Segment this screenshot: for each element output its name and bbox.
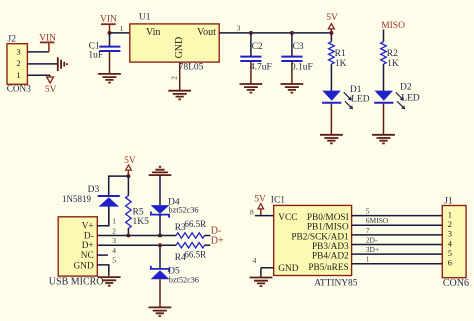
svg-text:1: 1 — [366, 255, 370, 264]
svg-text:1: 1 — [120, 24, 124, 33]
svg-text:V+: V+ — [82, 222, 94, 232]
wire USB NC stub — [97, 254, 108, 256]
connector J3 USB MICRO body — [58, 217, 97, 276]
svg-text:VCC: VCC — [278, 213, 297, 223]
wire IC1 pin3 row D+ — [352, 253, 443, 255]
op-amp U1 regulator body — [130, 24, 219, 62]
wire D+ row — [97, 244, 176, 246]
svg-text:D-: D- — [84, 231, 94, 241]
wire junction to D3 — [109, 176, 129, 195]
svg-text:MISO: MISO — [381, 21, 405, 31]
wire D- row — [97, 235, 176, 237]
node C2 junction — [249, 31, 253, 35]
zener diode D5 bzt52c36 — [151, 245, 199, 307]
svg-text:Vout: Vout — [197, 27, 216, 38]
ground under U1 — [168, 91, 191, 100]
wire MISO to R2 — [383, 30, 385, 42]
wire IC1 pin8 — [255, 215, 274, 217]
node D5/D+ junction — [158, 243, 162, 247]
node C3 junction — [290, 31, 294, 35]
svg-text:66.5R: 66.5R — [184, 219, 206, 229]
svg-text:GND: GND — [278, 264, 298, 274]
power port VIN at J2 (bar style) — [39, 34, 56, 52]
svg-text:2: 2 — [169, 76, 178, 80]
svg-text:4: 4 — [253, 256, 257, 265]
wire J2 pin2 to ground — [27, 63, 57, 65]
svg-text:bzt52c36: bzt52c36 — [169, 206, 199, 215]
wire IC1 pin5 row — [352, 215, 443, 217]
ground under IC1 pin4 — [250, 278, 273, 287]
svg-text:5V: 5V — [254, 195, 266, 205]
svg-text:PB4/AD2: PB4/AD2 — [312, 251, 349, 261]
svg-text:PB1/MISO: PB1/MISO — [307, 223, 349, 233]
capacitor C2 — [240, 33, 272, 84]
wire USB GND to ground — [97, 265, 109, 276]
wire ground to D4 — [159, 175, 161, 205]
ground under D1 — [320, 135, 343, 144]
svg-text:1K5: 1K5 — [133, 217, 150, 227]
ground under C2 — [240, 84, 263, 93]
wire USB V+ up to D3 — [97, 207, 109, 226]
svg-text:VIN: VIN — [39, 34, 56, 44]
svg-text:1N5819: 1N5819 — [62, 194, 91, 204]
svg-text:5: 5 — [448, 248, 452, 258]
power port 5V at R5/D3 (arrow up) — [124, 156, 136, 176]
svg-text:1: 1 — [112, 217, 116, 226]
wire D2 to ground — [383, 104, 385, 135]
svg-text:1: 1 — [16, 70, 20, 80]
svg-text:IC1: IC1 — [271, 195, 286, 205]
wire R4 to D+ label — [205, 244, 211, 246]
resistor R2 — [381, 42, 399, 69]
wire IC1 pin7 row — [352, 234, 443, 236]
svg-text:5: 5 — [366, 206, 370, 215]
diode D3 1N5819 — [62, 185, 120, 226]
svg-text:3: 3 — [112, 236, 116, 245]
capacitor C1 — [88, 33, 120, 74]
svg-text:PB5/nRES: PB5/nRES — [308, 263, 348, 273]
wire IC1 pin1 row — [352, 263, 443, 265]
svg-text:3: 3 — [16, 46, 20, 56]
wire R1 to D1 — [330, 64, 332, 91]
wire IC1 pin6 row MISO — [352, 224, 443, 226]
wire VIN to U1 pin1 — [110, 32, 130, 34]
ground under C1 — [98, 74, 121, 83]
svg-text:J2: J2 — [8, 35, 17, 45]
svg-text:GND: GND — [74, 262, 94, 272]
svg-text:3: 3 — [448, 229, 452, 239]
ground under C3 — [281, 84, 304, 93]
svg-text:66.5R: 66.5R — [184, 250, 206, 260]
power port 5V at IC1 pin8 (arrow up) — [254, 195, 266, 216]
node R5/D- junction — [126, 234, 130, 238]
svg-text:D+: D+ — [82, 241, 94, 251]
ground under D2 — [372, 135, 395, 144]
svg-text:7: 7 — [366, 226, 370, 235]
svg-text:CON6: CON6 — [443, 278, 469, 289]
svg-text:USB MICRO: USB MICRO — [49, 277, 104, 288]
resistor R4 — [175, 243, 206, 264]
svg-text:5V: 5V — [326, 13, 338, 23]
svg-text:C3: C3 — [293, 42, 304, 52]
ground above D4 (inverted) — [149, 167, 172, 175]
svg-text:2: 2 — [112, 226, 116, 235]
resistor R5 — [126, 176, 150, 235]
svg-text:PB0/MOSI: PB0/MOSI — [307, 213, 349, 223]
connector J1 body — [442, 206, 466, 278]
svg-text:0.1uF: 0.1uF — [291, 63, 313, 73]
node D4/D- junction — [158, 234, 162, 238]
resistor R1 — [329, 33, 347, 69]
resistor R3 — [175, 219, 206, 238]
ground under USB — [98, 277, 121, 286]
svg-text:R1: R1 — [335, 49, 346, 59]
svg-text:5: 5 — [112, 256, 116, 265]
svg-text:4: 4 — [112, 246, 116, 255]
svg-text:5V: 5V — [124, 156, 136, 166]
svg-text:D+: D+ — [211, 236, 224, 247]
svg-text:VIN: VIN — [100, 14, 117, 24]
node 5V junction — [329, 31, 333, 35]
svg-text:3: 3 — [237, 23, 241, 32]
svg-text:D2: D2 — [400, 82, 412, 92]
svg-text:J1: J1 — [444, 197, 453, 207]
svg-text:C2: C2 — [252, 42, 263, 52]
svg-text:2: 2 — [16, 58, 20, 68]
svg-text:1K: 1K — [387, 59, 399, 69]
node 5V/D3/R5 junction — [126, 174, 130, 178]
svg-text:4: 4 — [448, 238, 453, 248]
svg-text:78L05: 78L05 — [179, 62, 204, 72]
capacitor C3 — [281, 33, 313, 84]
zener diode D4 bzt52c36 — [151, 198, 199, 236]
IC U1 ATTINY85 body — [274, 205, 352, 275]
wire D1 to ground — [330, 104, 332, 135]
wire IC1 pin2 row D- — [352, 244, 443, 246]
svg-text:2: 2 — [448, 219, 452, 229]
wire R3 to D- label — [205, 235, 211, 237]
svg-text:CON3: CON3 — [7, 83, 31, 93]
svg-text:Vin: Vin — [146, 27, 160, 38]
node VIN junction — [108, 31, 112, 35]
svg-text:bzt52c36: bzt52c36 — [169, 276, 199, 285]
connector J2 body — [7, 44, 27, 85]
power port 5V at R1 (arrow up) — [326, 13, 338, 33]
svg-text:R2: R2 — [387, 49, 398, 59]
wire J2 pin3 to VIN — [27, 51, 49, 53]
svg-text:1K: 1K — [335, 59, 347, 69]
svg-text:NC: NC — [81, 251, 94, 261]
svg-text:6MISO: 6MISO — [366, 216, 389, 225]
svg-text:3D+: 3D+ — [366, 245, 379, 254]
svg-text:U1: U1 — [139, 13, 151, 23]
svg-text:LED: LED — [351, 94, 370, 104]
wire J2 pin1 to 5V — [27, 74, 50, 76]
svg-text:5V: 5V — [45, 85, 57, 95]
wire IC1 pin4 to ground — [261, 268, 274, 277]
svg-text:4.7uF: 4.7uF — [250, 63, 272, 73]
power port 5V at J2 pin1 (arrow down) — [45, 75, 57, 95]
svg-text:1: 1 — [448, 209, 452, 219]
ground under D5 — [148, 307, 171, 316]
wire R2 to D2 — [383, 64, 385, 91]
U1 pin 2 stem — [179, 62, 181, 91]
svg-text:2D-: 2D- — [366, 236, 378, 245]
ground at J2 pin2 (rotated) — [58, 57, 67, 71]
svg-text:6: 6 — [448, 258, 452, 268]
wire U1 Vout to 5V rail — [219, 32, 331, 34]
LED D2 — [374, 82, 420, 109]
svg-text:LED: LED — [401, 94, 420, 104]
svg-text:R5: R5 — [133, 207, 144, 217]
power port VIN at C1 (bar style) — [100, 14, 117, 33]
svg-text:ATTINY85: ATTINY85 — [314, 278, 358, 288]
LED D1 — [322, 85, 370, 109]
svg-text:8: 8 — [250, 207, 254, 216]
svg-text:1uF: 1uF — [88, 50, 103, 60]
svg-text:GND: GND — [174, 37, 185, 59]
